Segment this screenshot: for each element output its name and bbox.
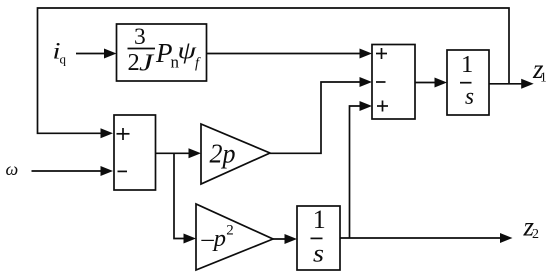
svg-text:J: J — [139, 51, 155, 77]
svg-text:2p: 2p — [210, 138, 236, 168]
svg-text:1: 1 — [461, 51, 473, 78]
svg-text:3: 3 — [134, 24, 146, 50]
svg-text:1: 1 — [540, 69, 547, 84]
svg-text:f: f — [195, 56, 201, 72]
svg-text:2: 2 — [128, 49, 140, 76]
svg-text:ω: ω — [6, 159, 19, 179]
svg-text:2: 2 — [226, 222, 234, 238]
svg-text:s: s — [465, 84, 474, 110]
svg-text:q: q — [60, 52, 67, 67]
svg-text:s: s — [313, 241, 324, 268]
svg-text:1: 1 — [313, 205, 326, 234]
svg-text:–p: –p — [201, 225, 227, 252]
svg-text:2: 2 — [532, 227, 539, 242]
